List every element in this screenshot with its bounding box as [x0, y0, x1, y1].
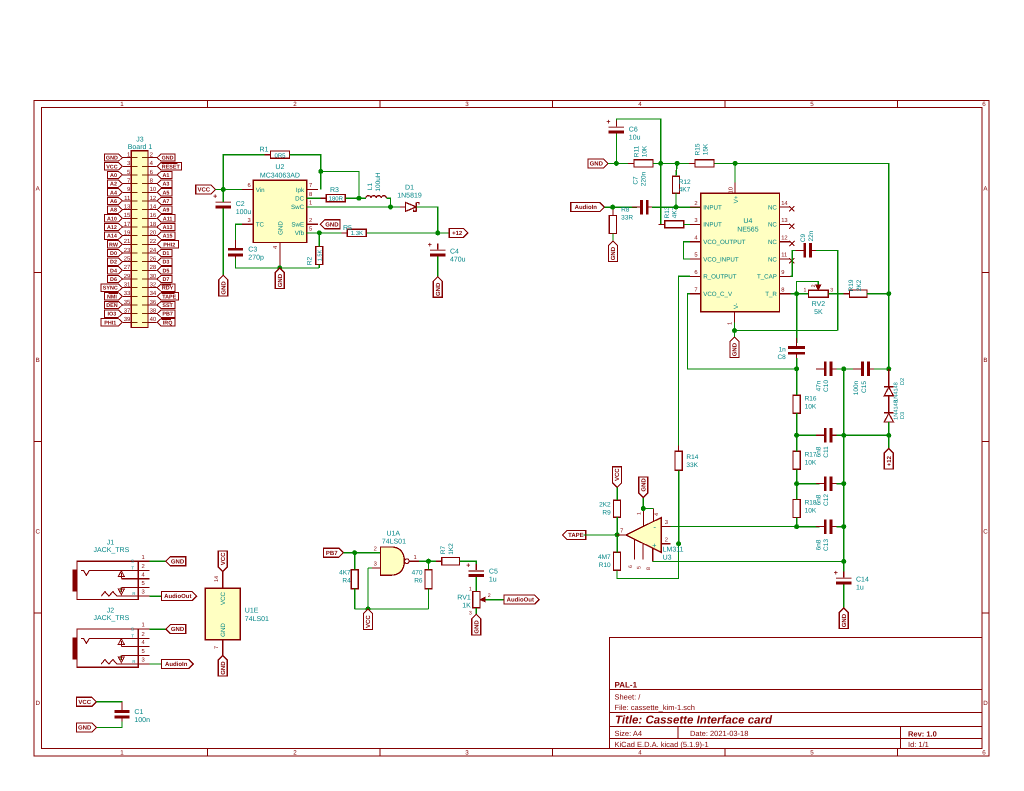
- resistor R16: [796, 389, 798, 419]
- svg-text:Sheet: /: Sheet: /: [615, 693, 642, 702]
- svg-text:5: 5: [810, 101, 814, 108]
- wire AudioIn to C7: [604, 206, 637, 208]
- inductor L1: [359, 197, 366, 199]
- svg-text:SYNC: SYNC: [103, 286, 118, 292]
- svg-text:2: 2: [694, 200, 697, 207]
- U2 pin 4 GND: [279, 243, 281, 269]
- svg-text:R1: R1: [260, 147, 269, 154]
- svg-text:C11: C11: [823, 446, 830, 458]
- svg-text:2K2: 2K2: [599, 502, 611, 509]
- svg-text:20: 20: [150, 230, 157, 237]
- net label A9 (pin 14): [157, 206, 172, 213]
- wire R18 leads: [796, 484, 798, 500]
- svg-text:T_CAP: T_CAP: [757, 274, 777, 281]
- svg-text:B: B: [36, 357, 40, 364]
- svg-text:1: 1: [309, 201, 312, 207]
- power flag +12: [449, 228, 468, 237]
- J3 pin 8 stub: [148, 183, 157, 185]
- U2 pin 2 SwE: [307, 223, 318, 225]
- connector J2 body: [77, 629, 138, 667]
- power flag GND below R8: [608, 241, 617, 262]
- power flag VCC below gate: [364, 609, 373, 630]
- svg-text:VCC: VCC: [220, 591, 227, 605]
- svg-text:S: S: [131, 559, 134, 564]
- svg-text:PB7: PB7: [326, 550, 338, 557]
- junction row C13 left: [794, 524, 799, 529]
- net label D3 (pin 26): [157, 258, 172, 265]
- J3 pin 22 stub: [148, 243, 157, 245]
- svg-text:10K: 10K: [805, 460, 817, 467]
- power flag GND at J1: [166, 557, 186, 566]
- wire GND to pins 1 and 4: [642, 498, 644, 509]
- net label TAPE (pin 34): [157, 293, 178, 300]
- resistor R11: [628, 162, 659, 164]
- svg-text:+: +: [213, 194, 217, 201]
- junction Vfb node: [317, 230, 322, 235]
- svg-text:470: 470: [412, 570, 423, 577]
- junction rail row C11: [841, 433, 846, 438]
- U1E pin 14 stub: [222, 572, 224, 589]
- J2 pin 5: [121, 655, 149, 657]
- power flag GND below C4: [433, 277, 442, 298]
- svg-text:AudioOut: AudioOut: [507, 597, 534, 604]
- svg-text:GND: GND: [325, 221, 339, 228]
- svg-text:11: 11: [781, 253, 787, 259]
- net label SYNC (pin 31): [101, 284, 122, 291]
- svg-text:U1A: U1A: [386, 531, 400, 538]
- resistor R18: [796, 494, 798, 524]
- J3 pin 5 stub: [123, 174, 131, 176]
- svg-text:33R: 33R: [621, 214, 633, 221]
- svg-text:10: 10: [727, 187, 734, 193]
- svg-text:6: 6: [247, 182, 250, 189]
- svg-text:Vin: Vin: [256, 187, 265, 194]
- net label DEN (pin 35): [105, 301, 123, 308]
- svg-text:1: 1: [120, 101, 124, 108]
- svg-text:14: 14: [214, 576, 220, 582]
- svg-text:6: 6: [694, 269, 697, 276]
- J3 pin 4 stub: [148, 165, 157, 167]
- wire R4 leads: [354, 553, 356, 570]
- resistor R8: [612, 210, 614, 240]
- svg-text:16: 16: [150, 212, 157, 219]
- svg-text:1K2: 1K2: [448, 543, 455, 555]
- wire gate output: [419, 560, 442, 562]
- power flag VCC at C1: [77, 697, 97, 706]
- capacitor C12: [797, 483, 820, 485]
- J3 pin 29 stub: [123, 278, 131, 280]
- wire R17 leads: [796, 435, 798, 451]
- svg-text:R3: R3: [330, 187, 339, 194]
- svg-text:9: 9: [781, 269, 784, 276]
- svg-text:D2: D2: [110, 260, 117, 266]
- junction R8 top: [610, 205, 615, 210]
- net label A10 (pin 15): [105, 215, 123, 222]
- svg-text:13: 13: [781, 217, 787, 224]
- svg-text:1N5819: 1N5819: [397, 192, 422, 199]
- svg-text:C10: C10: [823, 380, 830, 392]
- svg-text:IRQ: IRQ: [163, 320, 173, 326]
- svg-text:+: +: [606, 119, 610, 126]
- svg-text:Size: A4: Size: A4: [615, 729, 643, 738]
- power flag +12 vertical: [884, 449, 893, 470]
- wire R16 leads: [796, 369, 798, 395]
- svg-text:VCO_INPUT: VCO_INPUT: [703, 256, 739, 263]
- U3 pin 4 top stub: [653, 509, 655, 522]
- wire VCC bottom rail: [355, 608, 429, 610]
- net label PHI1 (pin 39): [101, 319, 122, 326]
- svg-text:4: 4: [654, 513, 660, 516]
- J3 pin 20 stub: [148, 235, 157, 237]
- net label A4 (pin 9): [108, 189, 123, 196]
- svg-text:4: 4: [638, 101, 642, 108]
- IC U4 NE565 body: [701, 193, 780, 311]
- J3 pin 27 stub: [123, 269, 131, 271]
- svg-text:SST: SST: [162, 303, 173, 309]
- capacitor C13: [797, 526, 820, 528]
- J2 sleeve bar: [72, 637, 77, 659]
- net label A12 (pin 17): [105, 223, 123, 230]
- svg-text:V+: V+: [733, 195, 740, 203]
- svg-text:INPUT: INPUT: [703, 204, 722, 211]
- frame row ticks left: [34, 272, 42, 274]
- net label A13 (pin 18): [157, 223, 175, 230]
- svg-text:23: 23: [124, 247, 131, 254]
- svg-text:12: 12: [150, 195, 157, 202]
- wire J1 pin 3 to label: [149, 595, 161, 597]
- svg-text:10K: 10K: [641, 145, 648, 157]
- svg-text:4K7: 4K7: [339, 570, 351, 577]
- svg-text:3: 3: [830, 288, 833, 294]
- svg-text:Title: Cassette Interface card: Title: Cassette Interface card: [615, 715, 773, 727]
- wire C2 to GND: [222, 208, 224, 275]
- svg-text:14: 14: [150, 204, 157, 211]
- U2 pin 1 SwC: [307, 206, 318, 208]
- svg-text:C12: C12: [823, 494, 830, 506]
- wire RV1 wiper to AudioOut: [493, 599, 504, 601]
- svg-text:10K: 10K: [805, 508, 817, 515]
- svg-text:A1: A1: [162, 173, 169, 179]
- junction DC node: [357, 196, 362, 201]
- svg-text:TAPE: TAPE: [162, 294, 176, 300]
- svg-text:J3: J3: [136, 137, 144, 144]
- svg-text:A7: A7: [162, 199, 169, 205]
- wire R7 to C5: [460, 561, 477, 569]
- net label D2 (pin 25): [108, 258, 123, 265]
- svg-text:6: 6: [982, 101, 986, 108]
- svg-text:R_OUTPUT: R_OUTPUT: [703, 274, 737, 281]
- svg-text:8: 8: [309, 191, 312, 198]
- svg-text:GND: GND: [106, 156, 118, 162]
- svg-text:J2: J2: [107, 608, 115, 615]
- sheet outer border: [34, 101, 989, 757]
- wire pin 3 to ladder: [670, 525, 796, 527]
- svg-text:GND: GND: [220, 623, 227, 637]
- svg-text:GND: GND: [278, 221, 285, 235]
- junction V+ pin 10 node: [733, 161, 738, 166]
- svg-text:NC: NC: [768, 239, 777, 246]
- svg-text:2: 2: [142, 631, 145, 638]
- svg-text:A14: A14: [107, 234, 117, 240]
- svg-text:31: 31: [124, 282, 131, 289]
- resistor R6: [428, 564, 430, 595]
- svg-text:24: 24: [150, 247, 157, 254]
- net label A6 (pin 11): [108, 197, 123, 204]
- svg-text:26: 26: [150, 256, 157, 263]
- J3 pin 35 stub: [123, 304, 131, 306]
- svg-text:GND: GND: [220, 661, 227, 675]
- wire J2 pin 1 to GND: [149, 628, 166, 630]
- U1A pin 1 output: [409, 560, 419, 562]
- wire C13 right to rail: [837, 526, 844, 528]
- wire pin 9 T_CAP to C9: [791, 250, 799, 276]
- svg-text:VCC: VCC: [197, 187, 210, 194]
- svg-text:5: 5: [810, 750, 814, 757]
- net label A3 (pin 8): [157, 180, 172, 187]
- svg-text:13: 13: [124, 204, 131, 211]
- global label PB7: [324, 548, 344, 557]
- wire VCC to C1: [96, 702, 122, 707]
- net label A15 (pin 20): [157, 232, 175, 239]
- wire C6 bottom to rail: [615, 134, 617, 164]
- svg-text:1N4148: 1N4148: [893, 382, 899, 402]
- svg-text:1: 1: [728, 322, 734, 325]
- J3 pin 39 stub: [123, 321, 131, 323]
- J3 pin 32 stub: [148, 287, 157, 289]
- svg-text:PHI2: PHI2: [163, 242, 175, 248]
- svg-text:GND: GND: [78, 725, 92, 732]
- J3 pin 14 stub: [148, 209, 157, 211]
- net label D7 (pin 30): [157, 275, 172, 282]
- wire RV1 to GND: [475, 608, 477, 615]
- svg-text:NC: NC: [768, 256, 777, 263]
- U3 pin 2 non-inverting input: [661, 543, 670, 545]
- svg-text:100n: 100n: [853, 380, 860, 395]
- svg-text:R8: R8: [621, 206, 630, 213]
- svg-text:GND: GND: [841, 613, 848, 627]
- J1 pin 1: [138, 560, 149, 562]
- comparator U3 LM311 body: [626, 518, 661, 553]
- svg-text:IO3: IO3: [108, 312, 117, 318]
- wire C1 to GND: [96, 722, 122, 728]
- junction diode top node: [886, 366, 891, 371]
- wire R1 to Ipk: [289, 155, 321, 190]
- global label AudioIn: [571, 203, 605, 212]
- svg-text:S: S: [131, 627, 134, 632]
- power flag GND above U3: [639, 477, 648, 498]
- power flag GND below C2: [219, 275, 228, 296]
- svg-text:TC: TC: [256, 222, 265, 229]
- net label GND (pin 2): [157, 154, 175, 161]
- resistor R4: [354, 564, 356, 595]
- J1 pin 5: [121, 587, 149, 589]
- U4 pin 12 NC: [779, 241, 790, 243]
- U4 pin 8 T_R: [779, 293, 790, 295]
- svg-text:V-: V-: [733, 303, 740, 309]
- svg-text:22: 22: [150, 238, 157, 245]
- svg-text:40: 40: [150, 316, 157, 323]
- svg-text:C1: C1: [134, 709, 143, 716]
- svg-text:12: 12: [781, 234, 787, 241]
- svg-text:+: +: [834, 570, 838, 577]
- wire RV2 to R19: [828, 293, 849, 295]
- svg-text:3: 3: [142, 589, 145, 596]
- resistor R5: [307, 232, 347, 234]
- svg-text:7: 7: [309, 183, 312, 189]
- svg-text:1: 1: [469, 586, 472, 592]
- svg-text:11: 11: [124, 195, 131, 202]
- svg-text:+: +: [428, 242, 432, 249]
- junction bias node left: [658, 161, 663, 166]
- wire C8 bottom: [796, 358, 798, 369]
- net label A0 (pin 5): [108, 171, 123, 178]
- svg-text:36: 36: [150, 299, 157, 306]
- net label SST (pin 36): [157, 301, 175, 308]
- wire TC to C3: [236, 224, 243, 245]
- power flag GND below U4: [730, 337, 739, 358]
- net label A5 (pin 10): [157, 189, 172, 196]
- svg-text:1: 1: [142, 555, 145, 561]
- connector J1 body: [77, 561, 138, 599]
- power flag GND below U1E: [218, 656, 227, 677]
- wire TAPE to comparator node: [584, 534, 626, 536]
- capacitor C2: [222, 195, 224, 202]
- svg-text:R16: R16: [805, 395, 817, 402]
- capacitor C6: [615, 120, 617, 127]
- capacitor C10: [816, 368, 824, 370]
- svg-text:R13: R13: [664, 206, 671, 218]
- wire T_R node: [791, 293, 809, 295]
- wire PB7 to gate input: [343, 552, 380, 554]
- diode D2: [888, 369, 890, 387]
- power flag GND below C14: [839, 608, 848, 629]
- svg-text:D: D: [35, 700, 40, 707]
- svg-text:PHI1: PHI1: [104, 320, 116, 326]
- svg-text:7: 7: [214, 646, 220, 649]
- svg-text:U4: U4: [743, 218, 752, 225]
- svg-text:47n: 47n: [815, 380, 822, 391]
- svg-text:File: cassette_kim-1.sch: File: cassette_kim-1.sch: [615, 703, 695, 712]
- resistor R9: [616, 494, 618, 523]
- svg-text:27: 27: [124, 264, 131, 271]
- svg-text:B: B: [983, 357, 987, 364]
- svg-text:VCC: VCC: [220, 552, 227, 565]
- svg-text:PB7: PB7: [162, 312, 173, 318]
- junction gate output node: [426, 559, 431, 564]
- svg-text:U1E: U1E: [245, 608, 259, 615]
- svg-text:D1: D1: [162, 251, 169, 257]
- J2 pin 1: [138, 628, 149, 630]
- svg-text:10K: 10K: [805, 403, 817, 410]
- junction R12 top: [675, 161, 680, 166]
- wire C9 right down to V- line: [816, 250, 838, 330]
- svg-text:3: 3: [469, 610, 472, 616]
- wire C4 to GND: [437, 257, 439, 277]
- svg-text:KiCad E.D.A. kicad (5.1.9)-1: KiCad E.D.A. kicad (5.1.9)-1: [615, 740, 709, 749]
- svg-text:C: C: [35, 529, 40, 536]
- junction C10/C15: [841, 366, 846, 371]
- svg-text:VCC: VCC: [78, 699, 91, 706]
- U2 pin 5 Vfb: [307, 232, 318, 234]
- svg-text:4K7: 4K7: [679, 187, 691, 194]
- U4 pin 4 VCO_OUTPUT: [690, 241, 701, 243]
- resistor R19: [843, 293, 873, 295]
- net label RESET (pin 4): [157, 163, 181, 170]
- J2 pin 4: [121, 646, 149, 648]
- wire C12 right to rail: [837, 483, 844, 485]
- svg-text:A13: A13: [163, 225, 173, 231]
- junction C6 minus: [614, 161, 619, 166]
- wire C14 to GND: [843, 585, 845, 609]
- svg-text:R15: R15: [694, 143, 701, 155]
- J1 pin 4: [121, 578, 149, 580]
- frame row ticks right: [982, 272, 989, 274]
- net label RW (pin 21): [108, 241, 123, 248]
- svg-text:33K: 33K: [686, 462, 698, 469]
- wire R14 to pin 2 node: [678, 470, 680, 543]
- svg-text:R6: R6: [414, 578, 423, 585]
- resistor R17: [796, 445, 798, 475]
- U2 pin 8 DC: [307, 197, 318, 199]
- svg-text:35: 35: [124, 299, 131, 306]
- svg-text:C13: C13: [823, 539, 830, 551]
- J3 pin 36 stub: [148, 304, 157, 306]
- svg-text:A11: A11: [163, 216, 173, 222]
- J3 pin 3 stub: [123, 165, 131, 167]
- J2 ring contact: [101, 660, 149, 665]
- svg-text:4: 4: [638, 750, 642, 757]
- svg-text:4M7: 4M7: [598, 554, 611, 561]
- wire L1 to SwC node: [386, 198, 390, 207]
- net label D6 (pin 29): [108, 275, 123, 282]
- J3 pin 33 stub: [123, 295, 131, 297]
- svg-text:2: 2: [811, 284, 817, 287]
- U4 pin 10 V+: [734, 163, 736, 182]
- wire VCO_OUTPUT to VCO_INPUT loop: [684, 242, 690, 259]
- svg-text:3: 3: [465, 750, 469, 757]
- J3 pin 1 stub: [123, 157, 131, 159]
- net label A7 (pin 12): [157, 197, 172, 204]
- U4 pin 14 NC: [779, 206, 790, 208]
- svg-text:19: 19: [124, 230, 131, 237]
- svg-text:VCO_C_V: VCO_C_V: [703, 291, 733, 298]
- svg-text:1: 1: [637, 512, 643, 515]
- junction rail row C12: [841, 481, 846, 486]
- J3 pin 15 stub: [123, 217, 131, 219]
- U3 pin 7 output: [617, 534, 626, 536]
- svg-text:3: 3: [665, 519, 668, 526]
- net label D1 (pin 24): [157, 249, 172, 256]
- wire bias node: [653, 162, 695, 164]
- svg-text:2: 2: [665, 536, 668, 543]
- wire U3 pin 8 to C14 node: [653, 560, 844, 562]
- svg-text:3: 3: [374, 561, 377, 568]
- J3 pin 21 stub: [123, 243, 131, 245]
- wire GND flag to R11: [608, 162, 634, 164]
- svg-text:R10: R10: [599, 562, 611, 569]
- svg-text:R17: R17: [805, 452, 817, 459]
- power flag VCC above U1E: [218, 551, 227, 572]
- net label RDY (pin 32): [157, 284, 175, 291]
- U2 pin 6 Vin: [242, 189, 253, 191]
- svg-text:A10: A10: [107, 216, 117, 222]
- J3 pin 28 stub: [148, 269, 157, 271]
- svg-text:GND: GND: [220, 281, 227, 295]
- U2 pin 7 Ipk: [307, 189, 318, 191]
- junction U3 pin 2 node: [676, 541, 681, 546]
- no-connect at U4 pin 13: [789, 224, 794, 229]
- svg-text:74LS01: 74LS01: [245, 616, 269, 623]
